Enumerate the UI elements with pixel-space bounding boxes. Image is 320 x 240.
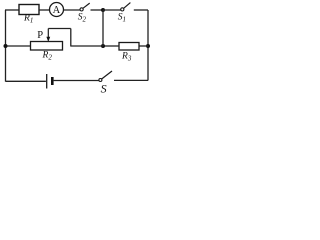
wire right vertical [147,10,149,81]
wiper P arrow [47,29,49,39]
wire top-left segment [5,9,20,11]
wire S to bottom-right corner [114,79,148,81]
svg-text:S: S [101,82,107,93]
resistor R1 [19,5,39,15]
wire node B to R3 [103,45,119,47]
wire wiper step to node B [71,45,103,47]
svg-text:A: A [53,5,61,16]
wire left wire to R2 [6,45,31,47]
wire ammeter to switch S2 [64,9,81,11]
node A junction dot top [101,8,105,12]
rheostat R2 [31,42,63,51]
wire R3 to right wire [139,45,148,47]
svg-text:P: P [37,30,43,41]
wire S2 to node A [91,9,104,11]
resistor R3 [119,43,139,51]
node B junction dot middle [101,44,105,48]
switch S2 [80,8,83,11]
ammeter A [50,3,64,17]
battery cell long plate [46,74,48,89]
wire wiper top horizontal [48,28,71,30]
switch S1 [121,8,124,11]
wire S1 to top-right corner [134,9,148,11]
battery cell short plate [51,77,54,85]
wire R1 to ammeter [39,9,50,11]
wire battery to switch S [54,80,99,82]
node junction dot right middle [146,44,150,48]
node junction dot left middle [4,44,8,48]
switch S [99,79,102,82]
wire node A to switch S1 [103,9,121,11]
wire bottom-left segment [6,80,46,82]
wire left vertical [5,10,7,82]
wire vertical node A to node B [102,10,104,46]
wire wiper step vertical [70,29,72,47]
